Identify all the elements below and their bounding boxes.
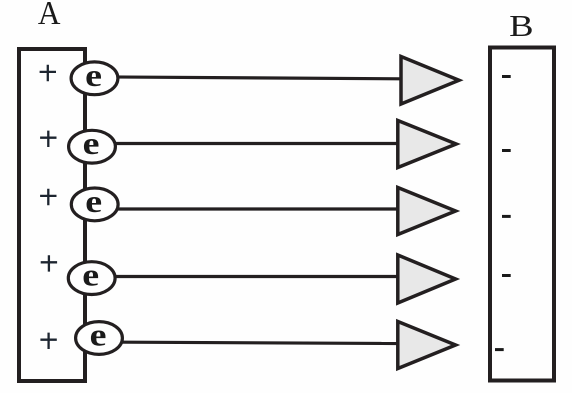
electron e1 ellipse [71, 62, 118, 95]
svg-text:e: e [90, 318, 107, 353]
plate A rectangle [19, 49, 85, 381]
arrowhead row 1 [401, 57, 459, 105]
electron e4 ellipse [68, 262, 115, 295]
svg-text:A: A [38, 0, 61, 33]
plate B rectangle [490, 48, 554, 381]
wire row 3 [85, 207, 398, 210]
plus charge 4 [41, 255, 57, 271]
wire row 4 [85, 275, 398, 278]
svg-text:B: B [509, 9, 533, 43]
svg-text:e: e [83, 126, 100, 161]
svg-text:e: e [85, 58, 102, 93]
minus charge 3 [502, 215, 511, 218]
electron e2 ellipse [69, 130, 116, 163]
arrowhead row 3 [398, 188, 456, 235]
svg-text:e: e [85, 184, 102, 219]
minus charge 2 [502, 149, 511, 152]
svg-text:e: e [82, 258, 99, 293]
minus charge 4 [502, 274, 511, 277]
arrowhead row 4 [398, 255, 456, 303]
minus charge 1 [502, 75, 511, 78]
wire row 5 [85, 342, 398, 344]
minus charge 5 [495, 348, 504, 351]
plus charge 1 [40, 65, 56, 81]
arrowhead row 5 [398, 322, 456, 369]
plus charge 2 [40, 131, 56, 147]
electron e5 ellipse [76, 322, 123, 355]
arrowhead row 2 [398, 121, 456, 168]
wire row 1 [85, 77, 400, 79]
electron e3 ellipse [71, 188, 118, 221]
wire row 2 [85, 142, 398, 145]
plus charge 5 [40, 333, 56, 349]
plus charge 3 [40, 189, 56, 205]
